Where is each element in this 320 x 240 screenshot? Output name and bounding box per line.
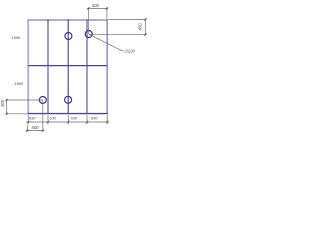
- svg-text:630: 630: [50, 116, 57, 121]
- plate outline left edge: [27, 19, 29, 114]
- svg-text:1560: 1560: [14, 81, 24, 86]
- middle horizontal line: [28, 65, 107, 67]
- dim 500 top extension line from right corner: [106, 7, 108, 19]
- bottom 630 row tick 4: [106, 121, 108, 123]
- bottom 630 row extension line bay2: [67, 115, 69, 124]
- plate outline bottom edge: [28, 113, 108, 115]
- dim 500 bottom extension from plate corner: [26, 125, 28, 132]
- svg-text:500: 500: [32, 125, 40, 130]
- dim 400 right dimension line: [144, 18, 146, 35]
- hole circle top-left: [65, 33, 72, 40]
- bottom 630 row extension line bay3: [86, 115, 88, 124]
- svg-text:∅220: ∅220: [124, 49, 136, 54]
- dim 400 left tick bottom: [6, 113, 8, 115]
- dim 400 left extension line from hole: [6, 99, 43, 101]
- hole circle bottom-mid: [65, 96, 72, 103]
- dim 400 right extension line from hole: [89, 33, 147, 35]
- dim 500 top tick right: [106, 7, 108, 9]
- bottom 630 row dimension line: [26, 121, 109, 123]
- dim 500 bottom tick left: [26, 129, 28, 131]
- inner vertical line C (x=68.2): [67, 19, 69, 113]
- leader line to hole top-right: [89, 34, 121, 50]
- dim 500 bottom extension from hole: [42, 100, 44, 132]
- bottom 630 row tick 1: [47, 121, 49, 123]
- plate outline right edge: [106, 19, 108, 114]
- svg-text:630: 630: [91, 116, 98, 121]
- hole circle top-right: [85, 31, 92, 38]
- dim 500 top extension line from hole: [88, 7, 90, 34]
- svg-text:630: 630: [70, 116, 77, 121]
- svg-text:400: 400: [0, 99, 5, 107]
- hole circle bottom-left: [39, 97, 46, 104]
- bottom 630 row extension line bay1: [47, 115, 49, 124]
- dim 400 left dimension line: [6, 99, 8, 115]
- dim 500 bottom tick right: [42, 129, 44, 131]
- svg-text:630: 630: [29, 116, 36, 121]
- bottom 630 row extension line bay4: [106, 115, 108, 124]
- dim 400 left extension line along plate bottom: [6, 113, 28, 115]
- dim 400 right tick bottom: [144, 33, 146, 35]
- inner vertical line B (x=48): [47, 19, 49, 113]
- dim 500 top dimension line: [87, 7, 108, 9]
- leader horizontal tail: [121, 49, 124, 51]
- inner vertical line D (x=87): [86, 19, 88, 113]
- bottom 630 row tick 3: [86, 121, 88, 123]
- bottom 630 row tick 2: [67, 121, 69, 123]
- svg-text:500: 500: [92, 3, 100, 8]
- dim 400 left tick top: [6, 99, 8, 101]
- dim 400 right tick top: [144, 18, 146, 20]
- svg-text:1560: 1560: [11, 35, 21, 40]
- dim 500 bottom dimension line: [26, 130, 45, 132]
- dim 400 right extension line from top corner: [109, 19, 147, 21]
- svg-text:400: 400: [138, 23, 143, 31]
- dim 500 top tick left: [88, 7, 90, 9]
- plate outline top edge: [27, 19, 108, 21]
- bottom 630 row tick 0: [27, 121, 29, 123]
- bottom 630 row extension line bay0: [27, 115, 29, 124]
